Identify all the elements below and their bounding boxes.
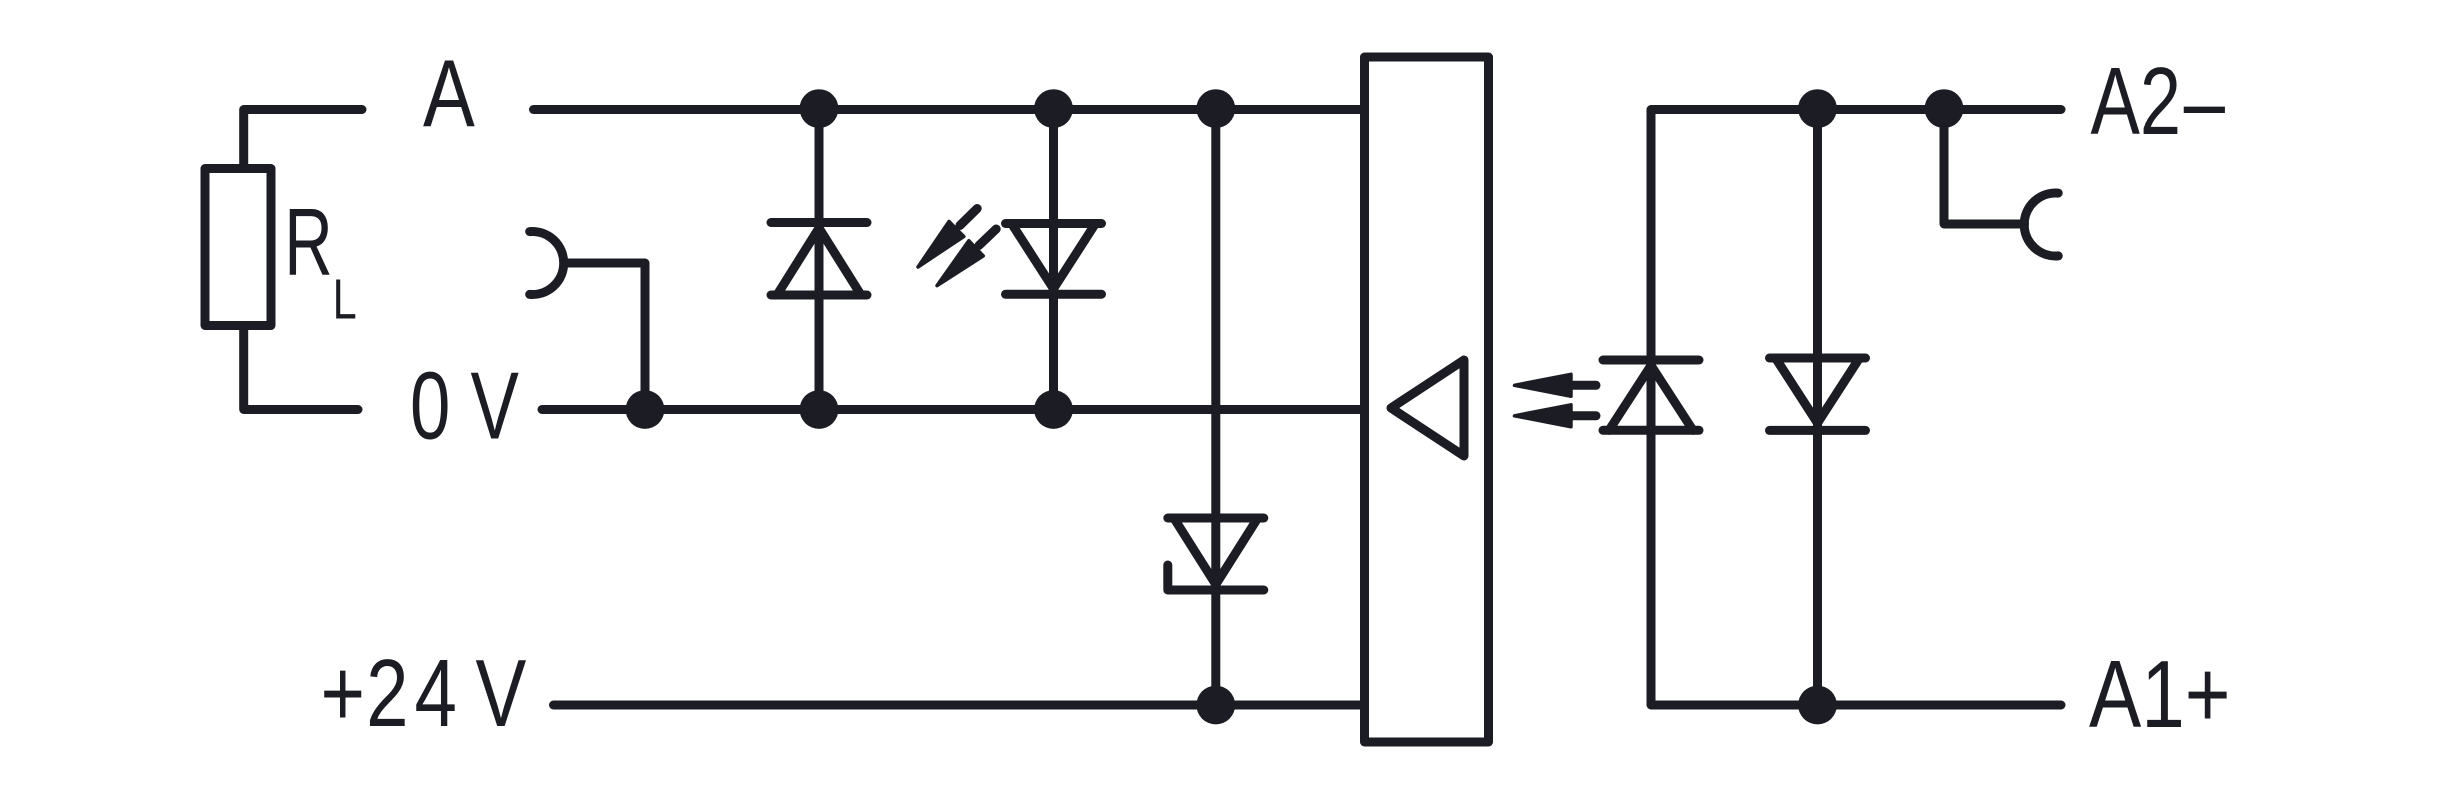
node dot right bottom x1817	[1798, 686, 1837, 725]
wire right top line A2-	[1651, 110, 2061, 706]
connector half-circle left	[530, 232, 564, 295]
LED D2 triangle	[1012, 224, 1096, 289]
node dot right top x1944	[1925, 89, 1964, 128]
optocoupler light arrow 2	[1515, 405, 1572, 427]
diode D3 base bar	[1603, 426, 1699, 435]
svg-text:0 V: 0 V	[410, 353, 519, 460]
diode D1 base bar	[771, 291, 867, 300]
node dot top line x819	[800, 89, 839, 128]
diode D1 triangle	[777, 228, 861, 295]
svg-text:A2–: A2–	[2091, 48, 2226, 155]
zener D5 base bar	[1168, 514, 1264, 523]
node dot top line x1053	[1034, 89, 1073, 128]
wire 0V line	[542, 405, 1363, 414]
wire connector to 0V node	[564, 263, 645, 410]
optocoupler light arrow 1	[1515, 374, 1572, 396]
node dot 0V x645	[626, 390, 665, 429]
wire diode D1 vertical	[815, 110, 824, 410]
receiver triangle inside rectangle	[1391, 360, 1464, 456]
diode D3 triangle	[1609, 366, 1693, 431]
wire LED D2 vertical	[1049, 110, 1058, 410]
LED D2 base bar	[1006, 219, 1102, 228]
LED D2 emission arrow 2	[937, 241, 983, 286]
node dot top line x1216	[1196, 89, 1235, 128]
LED D2 cathode bar	[1006, 290, 1102, 299]
wire A2 connector stub	[1944, 110, 2025, 225]
svg-text:A: A	[423, 40, 475, 148]
node dot +24V x1216	[1196, 686, 1235, 725]
wire +24V line	[554, 701, 1364, 710]
wire zener D5 vertical	[1211, 110, 1220, 706]
svg-text:A1+: A1+	[2089, 640, 2231, 747]
diode D4 base bar	[1770, 354, 1866, 363]
zener D5 cathode bar with hook	[1168, 565, 1264, 590]
LED D2 emission arrow 1	[918, 222, 964, 268]
diode D4 cathode bar	[1770, 426, 1866, 435]
svg-text:L: L	[333, 267, 357, 331]
node dot 0V x1053	[1034, 390, 1073, 429]
optocoupler body rectangle	[1365, 57, 1489, 742]
node dot right top x1817	[1798, 89, 1837, 128]
connector half-circle right	[2024, 193, 2058, 256]
diode D4 triangle	[1776, 358, 1860, 423]
svg-text:R: R	[284, 188, 333, 296]
node dot 0V x819	[800, 390, 839, 429]
diode D3 cathode bar	[1603, 356, 1699, 365]
diode D1 cathode bar	[771, 218, 867, 227]
svg-text:+24 V: +24 V	[321, 641, 527, 747]
wire node A main top line	[534, 105, 1364, 114]
wire resistor bottom to 0V stub	[244, 326, 358, 410]
wire top-left terminal stub A	[244, 110, 362, 169]
resistor R_L	[205, 169, 271, 326]
zener D5 triangle	[1174, 518, 1258, 585]
wire diode D4 vertical	[1813, 110, 1822, 706]
